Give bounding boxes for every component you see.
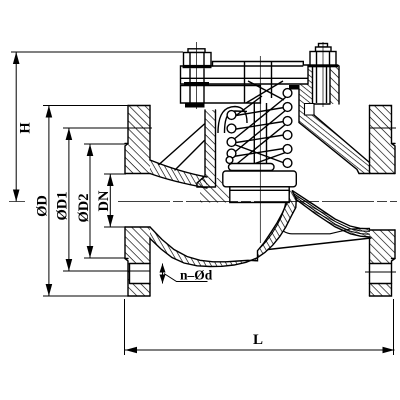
svg-text:ØD2: ØD2 xyxy=(76,194,92,223)
svg-text:ØD1: ØD1 xyxy=(55,192,71,221)
svg-text:n–Ød: n–Ød xyxy=(180,268,213,283)
svg-text:H: H xyxy=(18,122,34,134)
svg-text:L: L xyxy=(253,332,263,348)
svg-text:DN: DN xyxy=(96,190,112,211)
svg-text:ØD: ØD xyxy=(35,195,51,217)
